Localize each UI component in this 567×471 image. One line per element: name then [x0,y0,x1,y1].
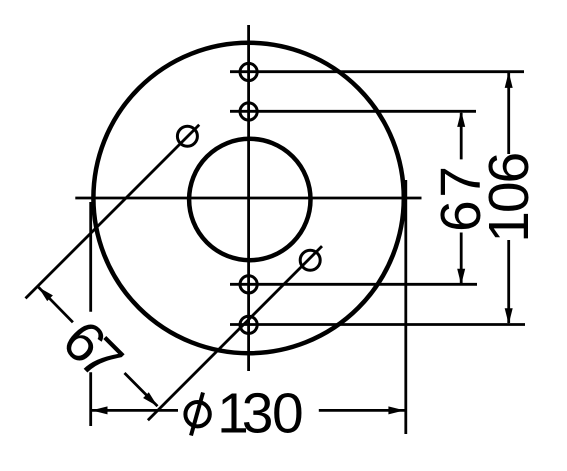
svg-text:0: 0 [272,382,304,446]
svg-text:3: 3 [242,382,274,446]
svg-text:106: 106 [477,152,541,243]
